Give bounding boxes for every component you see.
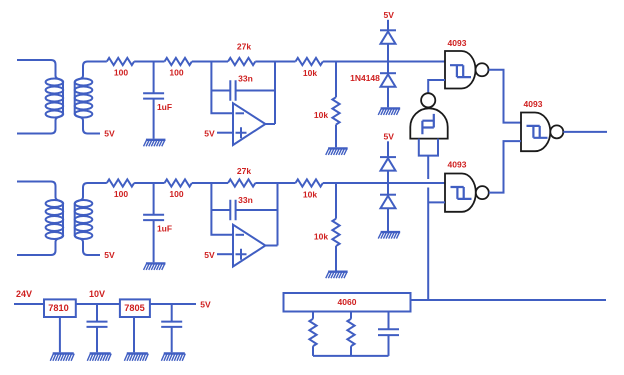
svg-text:10k: 10k	[314, 110, 328, 120]
svg-text:100: 100	[169, 189, 183, 199]
svg-text:100: 100	[114, 189, 128, 199]
svg-text:5V: 5V	[104, 250, 115, 260]
svg-text:4093: 4093	[448, 160, 467, 170]
svg-text:4093: 4093	[524, 99, 543, 109]
svg-text:27k: 27k	[237, 166, 251, 176]
svg-text:100: 100	[114, 68, 128, 78]
svg-text:7805: 7805	[124, 303, 144, 313]
svg-text:7810: 7810	[48, 303, 68, 313]
svg-text:100: 100	[169, 68, 183, 78]
svg-text:24V: 24V	[16, 289, 32, 299]
svg-text:1N4148: 1N4148	[350, 73, 380, 83]
svg-text:27k: 27k	[237, 42, 251, 52]
svg-text:5V: 5V	[104, 129, 115, 139]
svg-text:4093: 4093	[448, 38, 467, 48]
svg-text:4060: 4060	[338, 297, 357, 307]
svg-text:5V: 5V	[204, 250, 215, 260]
svg-text:33n: 33n	[238, 195, 253, 205]
svg-text:1uF: 1uF	[157, 102, 172, 112]
svg-text:1uF: 1uF	[157, 223, 172, 233]
svg-text:5V: 5V	[383, 10, 394, 20]
svg-text:10k: 10k	[314, 232, 328, 242]
svg-text:10V: 10V	[89, 289, 105, 299]
svg-text:5V: 5V	[200, 299, 211, 309]
svg-text:10k: 10k	[303, 68, 317, 78]
svg-text:5V: 5V	[383, 131, 394, 141]
svg-text:33n: 33n	[238, 74, 253, 84]
svg-text:10k: 10k	[303, 189, 317, 199]
svg-text:5V: 5V	[204, 128, 215, 138]
